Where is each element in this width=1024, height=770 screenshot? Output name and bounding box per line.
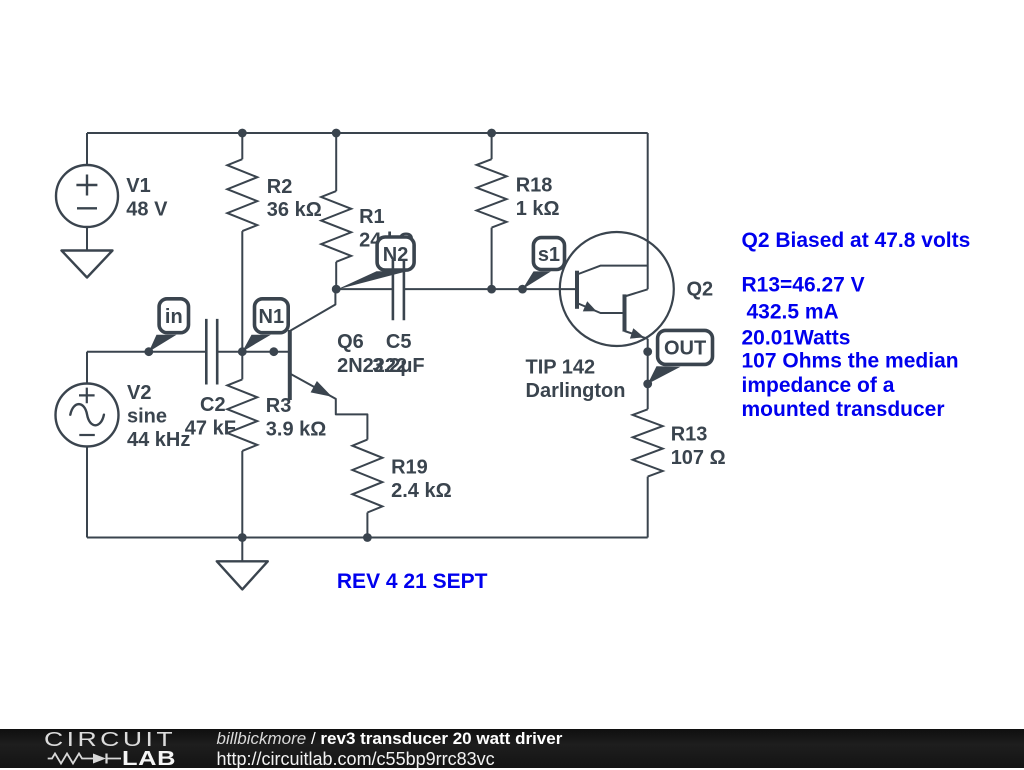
transistor Q2 circle: [560, 232, 674, 346]
svg-text:107 Ohms the median: 107 Ohms the median: [742, 349, 959, 372]
svg-text:C5: C5: [386, 331, 412, 353]
svg-text:36 kΩ: 36 kΩ: [267, 199, 322, 221]
Q2 inner T2 base bar: [623, 294, 627, 331]
junction dots top rail: [238, 129, 247, 138]
svg-text:432.5 mA: 432.5 mA: [747, 301, 839, 324]
svg-text:in: in: [165, 306, 183, 328]
svg-text:V2: V2: [127, 382, 151, 404]
svg-text:20.01Watts: 20.01Watts: [742, 326, 851, 349]
CircuitLab logo: [44, 730, 176, 750]
ground at bottom rail: [241, 538, 243, 562]
resistor R3: [241, 352, 243, 380]
voltage source V2: [86, 352, 88, 384]
junction dots mid rail: [332, 285, 341, 294]
wire top rail: [87, 132, 648, 134]
wire mid rail N2 to s1: [336, 288, 577, 290]
transistor Q6 base bar: [288, 330, 292, 400]
voltage source V1: [86, 133, 88, 165]
resistor R13: [647, 339, 649, 410]
svg-text:C2: C2: [200, 394, 226, 416]
svg-text:1 kΩ: 1 kΩ: [516, 198, 560, 220]
Q2 inner T1 collector: [577, 266, 648, 275]
svg-text:R19: R19: [391, 456, 428, 478]
Q2 inner T1 emitter: [577, 303, 625, 313]
svg-text:107 Ω: 107 Ω: [671, 447, 726, 469]
svg-text:3.2μF: 3.2μF: [372, 355, 424, 377]
wire bottom rail: [87, 537, 648, 539]
svg-text:V1: V1: [126, 175, 150, 197]
Q2 inner T2 collector: [625, 289, 648, 296]
junction dots bottom rail: [238, 533, 247, 542]
footer bar: [0, 729, 1024, 768]
svg-text:s1: s1: [538, 244, 560, 266]
resistor R2: [241, 133, 243, 159]
svg-text:48 V: 48 V: [126, 199, 168, 221]
logo resistor-diode glyph: [46, 752, 126, 766]
capacitor C5: [393, 260, 404, 320]
svg-text:Q6: Q6: [337, 331, 364, 353]
svg-text:R3: R3: [266, 395, 292, 417]
svg-text:Darlington: Darlington: [526, 380, 626, 402]
svg-text:R2: R2: [267, 176, 293, 198]
transistor Q6 collector: [290, 289, 336, 331]
junction dots OUT line: [643, 347, 652, 356]
Q2 inner T2 emitter: [625, 331, 648, 339]
ground under V1: [62, 251, 113, 278]
svg-text:impedance of a: impedance of a: [742, 374, 895, 397]
svg-text:TIP 142: TIP 142: [526, 357, 596, 379]
capacitor C2: [206, 319, 217, 385]
wire in rail: [87, 351, 290, 353]
resistor R18: [491, 133, 493, 159]
svg-text:R13=46.27 V: R13=46.27 V: [742, 273, 865, 296]
svg-text:Q2 Biased at 47.8 volts: Q2 Biased at 47.8 volts: [742, 229, 971, 252]
node N1: [255, 299, 289, 333]
svg-text:R1: R1: [359, 206, 385, 228]
transistor Q6 emitter: [290, 374, 368, 440]
svg-text:R13: R13: [671, 424, 708, 446]
svg-text:REV 4 21 SEPT: REV 4 21 SEPT: [337, 570, 488, 593]
resistor R19: [352, 440, 382, 513]
node OUT: [658, 330, 713, 364]
node N2: [377, 237, 414, 270]
svg-text:OUT: OUT: [664, 338, 706, 360]
footer titles: [217, 730, 563, 747]
svg-text:Q2: Q2: [687, 279, 714, 301]
svg-text:N1: N1: [259, 306, 285, 328]
svg-text:2.4 kΩ: 2.4 kΩ: [391, 480, 452, 502]
svg-text:mounted transducer: mounted transducer: [742, 398, 945, 421]
node s1: [533, 238, 564, 270]
node in: [159, 299, 188, 333]
Q2 inner T1 base bar: [575, 271, 579, 309]
resistor R1: [335, 133, 337, 191]
svg-text:47 kF: 47 kF: [185, 418, 236, 440]
wire right vertical to Q2 collector: [647, 133, 649, 289]
svg-text:3.9 kΩ: 3.9 kΩ: [266, 418, 327, 440]
svg-text:44 kHz: 44 kHz: [127, 429, 190, 451]
svg-text:R18: R18: [516, 175, 553, 197]
junction dots in rail: [144, 347, 153, 356]
svg-text:sine: sine: [127, 406, 167, 428]
